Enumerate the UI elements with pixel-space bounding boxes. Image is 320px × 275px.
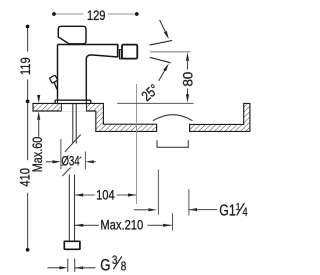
svg-text:G1: G1 bbox=[219, 201, 236, 219]
svg-text:Ø34: Ø34 bbox=[61, 154, 80, 169]
svg-text:4: 4 bbox=[242, 206, 247, 219]
svg-text:25°: 25° bbox=[138, 81, 162, 105]
svg-text:119: 119 bbox=[18, 57, 33, 75]
svg-text:G: G bbox=[100, 256, 110, 275]
svg-text:80: 80 bbox=[180, 71, 195, 86]
svg-text:Max.210: Max.210 bbox=[100, 218, 143, 233]
svg-text:Max.60: Max.60 bbox=[30, 137, 45, 173]
svg-text:8: 8 bbox=[121, 260, 127, 273]
svg-text:104: 104 bbox=[96, 187, 115, 202]
svg-text:129: 129 bbox=[87, 8, 106, 23]
